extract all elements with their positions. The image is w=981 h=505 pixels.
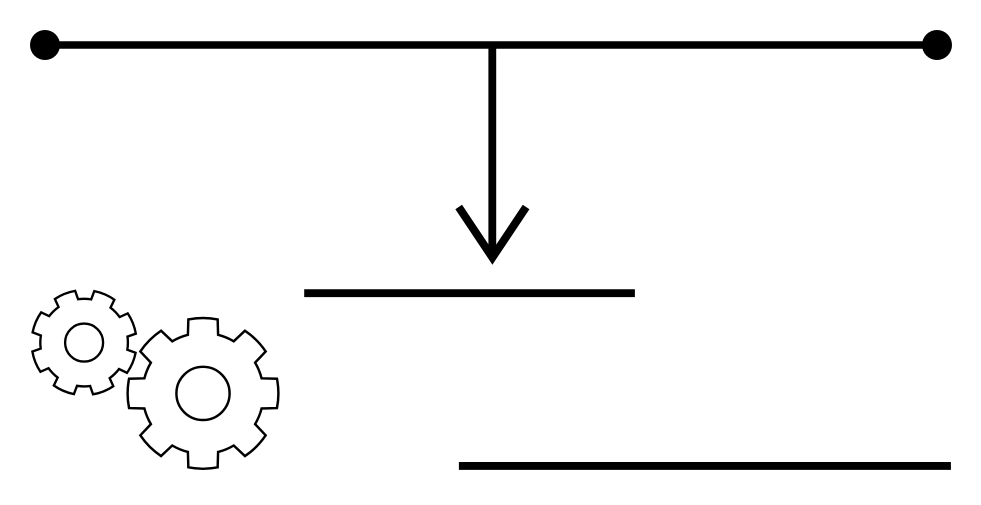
node left terminal dot <box>30 30 60 60</box>
wire bottom segment <box>459 462 951 470</box>
wire middle segment <box>304 289 635 297</box>
wire arrow shaft <box>488 45 496 250</box>
arrowhead chevron <box>459 207 526 258</box>
wire top rail <box>45 41 937 49</box>
gear G1 small <box>32 291 135 394</box>
gear G2 large <box>128 318 279 469</box>
node right terminal dot <box>922 30 952 60</box>
